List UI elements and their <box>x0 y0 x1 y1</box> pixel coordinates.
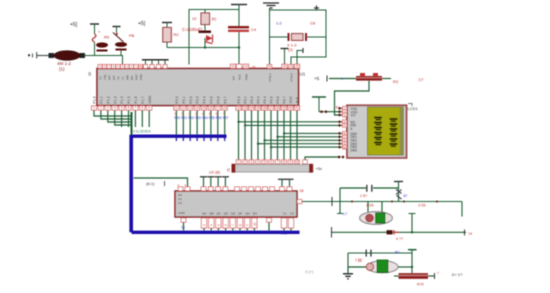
svg-text:C1L2E3D4: C1L2E3D4 <box>133 130 151 134</box>
svg-text:P0.6: P0.6 <box>276 96 280 103</box>
svg-text:P0.5: P0.5 <box>270 96 274 103</box>
svg-text:GND: GND <box>178 211 186 215</box>
svg-text:R?0: R?0 <box>417 283 424 287</box>
svg-text:E= V?: E= V? <box>452 273 462 277</box>
svg-text:9 10: 9 10 <box>281 232 287 236</box>
bus entry teeth <box>176 138 224 142</box>
svg-text:+5v: +5v <box>316 166 323 171</box>
U2 right pin box <box>297 200 302 204</box>
wire A right vert <box>461 202 463 217</box>
bus blue horizontal lower <box>132 231 300 234</box>
svg-text:P22: P22 <box>188 116 194 120</box>
svg-text:36: 36 <box>263 106 267 110</box>
U1 top pull-up stubs <box>142 60 169 69</box>
wire A mid vert <box>409 213 416 215</box>
svg-text:T0: T0 <box>117 76 121 80</box>
svg-text:5: 5 <box>217 224 221 226</box>
svg-text:C8: C8 <box>310 21 316 26</box>
svg-text:40: 40 <box>139 64 143 68</box>
svg-text:39: 39 <box>282 106 286 110</box>
potentiometer RV1 <box>329 73 423 84</box>
wire <box>37 55 50 57</box>
power bar above S1 <box>113 26 121 28</box>
svg-text:J1: J1 <box>227 168 231 172</box>
svg-text:PSN: PSN <box>245 74 249 80</box>
IC U2 body <box>175 191 297 217</box>
svg-text:P0.2: P0.2 <box>250 96 254 103</box>
power bar above C4 <box>231 4 247 6</box>
svg-text:40: 40 <box>289 106 293 110</box>
svg-text:WR: WR <box>126 74 130 80</box>
power bar A <box>394 181 403 183</box>
svg-text:P21: P21 <box>181 116 187 120</box>
svg-text:4: 4 <box>210 224 214 226</box>
svg-text:+5]: +5] <box>70 22 78 28</box>
net labels P2 row <box>174 112 228 120</box>
wires P2 cluster <box>176 110 224 136</box>
capacitor C6 <box>366 250 367 257</box>
power bar above C1 <box>90 23 99 25</box>
ground symbol B <box>343 274 353 279</box>
resistor R1 <box>192 10 217 31</box>
svg-text:9: 9 <box>148 106 150 110</box>
svg-text:ALE: ALE <box>296 96 300 103</box>
svg-text:(2): (2) <box>288 47 294 52</box>
wires P0 cluster to connector <box>239 110 298 160</box>
svg-text:P1.3: P1.3 <box>113 96 117 103</box>
svg-text:27: 27 <box>216 106 220 110</box>
svg-text:7: 7 <box>135 106 137 110</box>
svg-text:4 ??: 4 ?? <box>396 237 403 241</box>
svg-text:RST: RST <box>135 74 139 80</box>
svg-text:(k): (k) <box>212 16 217 21</box>
svg-text:CL: CL <box>283 212 287 216</box>
resistor R2 <box>163 23 180 48</box>
svg-text:P2.5: P2.5 <box>210 96 214 103</box>
U1 bottom-right pin boxes P0 <box>236 106 300 110</box>
LCD LCD1 module <box>347 105 407 158</box>
U1 bottom-left pin boxes P1 <box>91 106 151 110</box>
svg-text:37: 37 <box>269 106 273 110</box>
wire A bottom <box>332 231 466 233</box>
U1 pin names top <box>99 73 294 82</box>
diode D2 <box>387 230 393 234</box>
svg-text:19: 19 <box>244 64 248 68</box>
svg-text:A2: A2 <box>178 201 182 205</box>
power bar B <box>408 249 417 251</box>
svg-text:PSE: PSE <box>139 74 143 80</box>
svg-text:8: 8 <box>238 224 242 226</box>
svg-text:P27: P27 <box>223 116 229 120</box>
wire pot wiper to LCD vo <box>335 81 370 115</box>
svg-text:2: 2 <box>100 106 102 110</box>
wire crystal loop <box>270 10 327 65</box>
svg-text:18: 18 <box>289 64 293 68</box>
svg-text:P2.4: P2.4 <box>203 96 207 103</box>
svg-text:R3: R3 <box>393 79 399 84</box>
svg-text:25: 25 <box>202 106 206 110</box>
end mark A <box>464 230 466 236</box>
svg-text:?4: ?4 <box>468 232 472 236</box>
U1 pin PSEN stub <box>294 48 303 68</box>
svg-text:EA: EA <box>232 76 236 80</box>
svg-text:R2: R2 <box>174 32 180 37</box>
LCD pin number boxes <box>343 106 347 149</box>
svg-text:29: 29 <box>295 64 299 68</box>
wires P1 cluster <box>94 110 149 135</box>
svg-text:3: 3 <box>107 106 109 110</box>
svg-text:1-2: 1-2 <box>276 21 283 26</box>
svg-text:QH: QH <box>252 212 257 216</box>
connector J1 pin boxes <box>236 160 307 164</box>
svg-text:P23: P23 <box>195 116 201 120</box>
svg-text:28: 28 <box>300 189 304 193</box>
svg-text:C=(100uF): C=(100uF) <box>182 27 203 32</box>
svg-text:7: 7 <box>277 160 279 164</box>
wire U2 to sounder net <box>302 201 462 203</box>
svg-text:+5]: +5] <box>138 21 146 27</box>
svg-text:4: 4 <box>114 106 116 110</box>
connector J1 body <box>232 164 314 173</box>
resistor R4 <box>394 271 439 287</box>
wire A left vert <box>339 188 341 213</box>
svg-text:T2: T2 <box>99 76 103 80</box>
svg-text:8?: 8? <box>404 194 408 198</box>
crystal Y1 <box>49 51 86 72</box>
svg-text:6: 6 <box>270 160 272 164</box>
svg-text:10: 10 <box>253 222 257 226</box>
U1 pin ALE stub <box>281 49 289 69</box>
svg-text:3: 3 <box>202 224 206 226</box>
wire LCD vdd <box>319 111 347 113</box>
bus blue horizontal upper <box>132 134 227 137</box>
terminal P1 input <box>28 52 36 59</box>
svg-text:P26: P26 <box>216 116 222 120</box>
svg-text:(8-1): (8-1) <box>146 181 155 186</box>
node mark top right <box>314 6 319 11</box>
capacitor C5 <box>340 185 399 198</box>
svg-text:XTAL1: XTAL1 <box>268 73 272 82</box>
svg-text:22: 22 <box>182 106 186 110</box>
svg-text:QD: QD <box>224 212 229 216</box>
svg-text:31: 31 <box>231 64 235 68</box>
wires LCD data branches <box>237 120 346 149</box>
svg-text:QF: QF <box>238 212 242 216</box>
svg-text:3 (+): 3 (+) <box>305 269 314 274</box>
svg-text:LCD1: LCD1 <box>408 106 419 111</box>
svg-text:30: 30 <box>283 64 287 68</box>
svg-text:P0.7: P0.7 <box>283 96 287 103</box>
crystal X1 <box>270 33 327 52</box>
svg-text:QE: QE <box>231 212 235 216</box>
svg-text:24: 24 <box>195 106 199 110</box>
svg-text:P1.5: P1.5 <box>127 96 131 103</box>
svg-text:INT: INT <box>112 75 116 80</box>
U1 bottom-middle pin boxes P2 <box>174 106 228 110</box>
svg-text:P0.0: P0.0 <box>237 96 241 103</box>
svg-text:23: 23 <box>188 106 192 110</box>
svg-text:T2E: T2E <box>103 74 107 80</box>
svg-text:GND: GND <box>148 95 152 103</box>
wire connector to LCD bottom <box>305 157 341 160</box>
svg-text:41: 41 <box>295 106 299 110</box>
svg-text:(1): (1) <box>59 67 65 72</box>
svg-text:8: 8 <box>283 160 285 164</box>
wire B left vert <box>347 253 349 274</box>
svg-text:7: 7 <box>231 224 235 226</box>
U1 pin XTAL1 box <box>267 65 272 69</box>
U1 top-left pin boxes <box>98 64 143 68</box>
U2 bottom pin boxes <box>181 218 294 236</box>
LCD pin labels <box>351 107 359 152</box>
svg-text:26: 26 <box>209 106 213 110</box>
svg-text:P2.7: P2.7 <box>223 96 227 103</box>
IC U1 AT89C51 body <box>97 69 299 106</box>
svg-text:4: 4 <box>257 160 259 164</box>
svg-text:21: 21 <box>175 106 179 110</box>
svg-text:4M 1-2: 4M 1-2 <box>57 61 72 66</box>
svg-text:INT: INT <box>108 75 112 80</box>
svg-text:P1.2: P1.2 <box>106 96 110 103</box>
wire loop top <box>189 10 239 65</box>
wire bus to U2 pin <box>134 178 188 187</box>
svg-text:L2: L2 <box>358 259 362 263</box>
wire RST net <box>85 56 123 65</box>
wire LCD vss stub <box>340 107 347 109</box>
bus blue vertical <box>129 135 133 233</box>
svg-text:5: 5 <box>121 106 123 110</box>
svg-text:T1: T1 <box>121 76 125 80</box>
svg-text:9: 9 <box>290 160 292 164</box>
svg-text:P1.6: P1.6 <box>134 96 138 103</box>
svg-text:33: 33 <box>243 106 247 110</box>
svg-text:6: 6 <box>224 224 228 226</box>
wire R2 bottom net <box>167 47 239 49</box>
svg-text:C7: C7 <box>419 78 424 82</box>
svg-text:P2.3: P2.3 <box>196 96 200 103</box>
svg-text:C4: C4 <box>251 27 257 32</box>
svg-text:38: 38 <box>276 106 280 110</box>
U1 pin names bottom <box>93 95 300 103</box>
capacitor C1 reset <box>92 24 108 56</box>
svg-text:3: 3 <box>251 160 253 164</box>
svg-text:PB: PB <box>129 33 135 38</box>
svg-text:ALE: ALE <box>238 74 242 80</box>
svg-text:P1.1: P1.1 <box>100 96 104 103</box>
svg-text:31: 31 <box>252 66 256 70</box>
svg-text:32: 32 <box>237 106 241 110</box>
svg-text:P24: P24 <box>202 116 208 120</box>
svg-text:1?25: 1?25 <box>366 203 374 207</box>
svg-text:QC: QC <box>216 212 221 216</box>
svg-text:P2.0: P2.0 <box>175 96 179 103</box>
switch S1 reset button <box>104 27 135 56</box>
svg-text:P25: P25 <box>209 116 215 120</box>
svg-text:U1: U1 <box>300 72 306 77</box>
svg-text:10: 10 <box>295 160 299 164</box>
svg-text:10: 10 <box>343 145 347 149</box>
svg-text:R5: R5 <box>104 35 110 40</box>
svg-text:P0.3: P0.3 <box>257 96 261 103</box>
power bar above R2 <box>162 22 172 24</box>
U1 pin XTAL2 box <box>289 65 294 69</box>
svg-text:=: = <box>437 271 439 275</box>
svg-text:1?25: 1?25 <box>418 203 426 207</box>
sounder LS1 <box>343 202 392 225</box>
svg-text:P2.6: P2.6 <box>216 96 220 103</box>
terminal left A <box>331 197 333 206</box>
svg-text:10: 10 <box>192 16 197 21</box>
LCD screen text <box>374 117 398 147</box>
svg-text:1 5?: 1 5? <box>360 194 367 198</box>
svg-text:VCC: VCC <box>289 96 293 104</box>
svg-text:XTAL2: XTAL2 <box>290 73 294 82</box>
svg-text:39: 39 <box>88 72 92 76</box>
svg-text:L?: L? <box>343 212 347 216</box>
wire XTAL1 <box>269 8 271 65</box>
svg-text:35: 35 <box>256 106 260 110</box>
svg-text:19: 19 <box>268 64 272 68</box>
svg-text:U2 (8): U2 (8) <box>209 170 221 175</box>
svg-text:QG: QG <box>245 212 250 216</box>
svg-text:28: 28 <box>223 106 227 110</box>
svg-text:P0.1: P0.1 <box>244 96 248 103</box>
power arrow LCD vdd <box>312 96 326 98</box>
sounder LS2 <box>348 259 412 273</box>
svg-text:+5: +5 <box>314 76 320 81</box>
svg-text:6: 6 <box>128 106 130 110</box>
svg-text:P0.4: P0.4 <box>263 96 267 103</box>
svg-text:P20: P20 <box>174 116 180 120</box>
transistor Q1 marks <box>396 190 402 200</box>
diode D1 <box>199 31 213 49</box>
svg-text:DB5: DB5 <box>351 148 358 152</box>
svg-text:P1.0: P1.0 <box>93 96 97 103</box>
svg-text:34: 34 <box>250 106 254 110</box>
wire B right vert <box>411 250 413 276</box>
svg-text:P1.4: P1.4 <box>120 96 124 103</box>
wire B top <box>348 252 412 254</box>
capacitor C4 electrolytic <box>182 5 257 65</box>
ground bars crystal rail <box>263 3 279 8</box>
svg-text:P1.7: P1.7 <box>141 96 145 103</box>
svg-text:8: 8 <box>141 106 143 110</box>
svg-text:B?: B? <box>395 251 399 255</box>
svg-text:P2.2: P2.2 <box>189 96 193 103</box>
svg-text:9: 9 <box>246 224 250 226</box>
U2 pin names <box>178 193 295 216</box>
svg-text:2: 2 <box>244 160 246 164</box>
svg-text:5: 5 <box>264 160 266 164</box>
svg-text:P2.1: P2.1 <box>182 96 186 103</box>
svg-text:1: 1 <box>93 106 95 110</box>
svg-text:VO: VO <box>351 114 356 118</box>
svg-text:1: 1 <box>238 160 240 164</box>
U2 top pin boxes <box>178 177 293 191</box>
U1 top middle pin boxes <box>230 64 256 69</box>
svg-text:QB: QB <box>209 212 213 216</box>
